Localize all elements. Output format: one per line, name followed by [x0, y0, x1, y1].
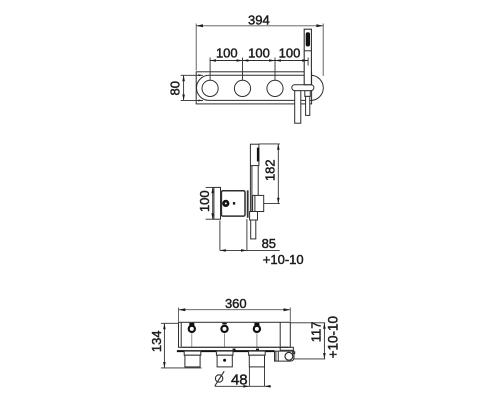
arrow 182 top [277, 144, 280, 150]
arrow pair at knob3 [269, 59, 281, 62]
thin strip under body [182, 346, 288, 348]
arrow pair at knob2 [237, 59, 249, 62]
holder inner line 1 [275, 351, 277, 361]
body left cap line [180, 322, 182, 347]
arrow 85 left [220, 249, 226, 252]
svg-text:80: 80 [168, 81, 183, 95]
dimension line 100 middle [212, 187, 214, 219]
extension line diameter right [264, 367, 266, 386]
arrow 117 top [323, 323, 326, 329]
arrow at knob1 [210, 59, 216, 62]
small mark on plate line left [233, 349, 236, 351]
handshower head bottom line [304, 50, 311, 52]
dimension line 85 [220, 249, 280, 251]
extension line 134 top [161, 322, 179, 324]
knob circle 1 [202, 80, 218, 96]
svg-text:+10-10: +10-10 [263, 252, 304, 267]
screw 1 axis line [191, 334, 193, 348]
dimension line 100 chain [210, 60, 308, 62]
tick arrow 80 top [198, 74, 203, 76]
arrow diameter left [243, 385, 249, 388]
dimension line 117 [323, 323, 325, 359]
extension line 117 top [290, 322, 325, 324]
tab 1 flange [184, 351, 201, 355]
extension line 360 left [178, 308, 180, 322]
arrow 100 bottom [211, 213, 214, 219]
extension line diameter left [248, 367, 250, 386]
dimension line 182 [277, 144, 279, 204]
arrow diameter right [265, 385, 271, 388]
valve body side view [221, 191, 245, 216]
svg-text:182: 182 [262, 159, 277, 181]
handshower spray face black [306, 32, 310, 46]
arrow top 80 [182, 75, 185, 81]
arrow left 394 [196, 24, 203, 27]
screw 1 [189, 326, 195, 332]
svg-text:360: 360 [225, 296, 247, 311]
arrow 85 right [241, 249, 247, 252]
extension line 360 right [289, 308, 291, 322]
arrow 360 left [179, 308, 186, 311]
body right cap line [279, 322, 281, 347]
svg-text:100: 100 [248, 45, 270, 60]
dimension line 134 [163, 323, 165, 368]
extension line 182 top [259, 143, 280, 145]
extension line 85 right [246, 219, 248, 250]
hose right tube [306, 96, 310, 115]
wall plate thick line [177, 350, 275, 352]
dimension line 80 [183, 75, 185, 100]
arrow right 394 [316, 24, 323, 27]
screw 3 [254, 326, 260, 332]
hose right connector [305, 91, 311, 97]
panel stadium body top view [197, 75, 324, 100]
arrow 117 bottom [323, 353, 326, 359]
dimension line 360 [179, 309, 291, 311]
screw 1 cap [189, 323, 194, 326]
extension line shower axis [307, 58, 309, 66]
svg-text:100: 100 [279, 45, 301, 60]
extension line knob2 [242, 58, 244, 81]
arrow 100 top [211, 187, 214, 193]
shower handle left line [249, 166, 251, 212]
holder notch [293, 352, 295, 354]
extension line 117 bottom [293, 358, 325, 360]
tab 3 flange [249, 351, 266, 355]
arrow 360 right [284, 308, 291, 311]
tab 3 square [249, 355, 264, 367]
extension line 100 top [206, 186, 214, 188]
panel outer rectangle top view [196, 72, 311, 104]
tab 2 dot [223, 359, 226, 362]
small mark on plate line right [256, 349, 259, 351]
arrow at shower axis [302, 59, 308, 62]
diameter symbol circle [215, 375, 222, 382]
dimension line 394 [196, 25, 323, 27]
screw 2 cap [222, 323, 226, 325]
tab 2 square [217, 355, 232, 367]
svg-text:100: 100 [197, 190, 212, 212]
hose connector below handle [250, 212, 258, 221]
screw 3 cap [254, 323, 259, 326]
svg-text:+10-10: +10-10 [325, 316, 340, 358]
arrow 182 bottom [277, 198, 280, 204]
svg-text:85: 85 [262, 236, 276, 251]
holder hose circle [285, 352, 293, 360]
dimension line diameter 48 [215, 385, 271, 387]
small square on body [233, 202, 235, 205]
arrow 134 top [163, 323, 166, 329]
shower head side view [250, 144, 259, 165]
holder inner line 2 [277, 351, 279, 361]
shower head spray strip [257, 148, 259, 162]
svg-text:117: 117 [308, 322, 323, 343]
tick arrow 80 bottom [198, 100, 203, 102]
extension line right 394 [322, 24, 324, 77]
extension line 85 left [219, 221, 221, 251]
handshower handle top view [304, 29, 311, 84]
handle square inner line [254, 195, 256, 211]
screw ring on body [224, 201, 229, 206]
shower handle right line [257, 166, 259, 196]
arrow bottom 80 [182, 95, 185, 101]
extension line 182 bottom [264, 203, 280, 205]
arrow 134 bottom [163, 362, 166, 368]
svg-text:48: 48 [231, 372, 248, 389]
shower hose inner line [251, 166, 253, 212]
extension line knob1 [209, 58, 211, 81]
right plate step [280, 347, 293, 350]
svg-text:394: 394 [248, 12, 270, 27]
hose tube below [251, 220, 256, 239]
extension line knob3 [274, 58, 276, 81]
svg-text:134: 134 [149, 330, 164, 352]
tab 2 flange [216, 351, 233, 355]
holder box bottom view [275, 351, 295, 361]
hose left tube [295, 91, 301, 124]
diameter symbol slash [215, 371, 224, 386]
extension line left 394 [195, 24, 197, 71]
trim plate side view [214, 187, 221, 219]
extension line 134 bottom [161, 367, 202, 369]
extension line 100 bottom [206, 218, 214, 220]
knob circle 3 [267, 80, 283, 96]
handle square side view [253, 195, 264, 211]
escutcheon bar dark [247, 190, 249, 218]
screw 3 axis line [256, 334, 258, 348]
holder pill top view [292, 85, 314, 91]
screw 2 axis line [224, 334, 226, 348]
svg-text:100: 100 [216, 45, 238, 60]
extension line 80 bottom [181, 99, 203, 101]
tab 1 square [185, 355, 200, 367]
body rectangle bottom view [179, 322, 291, 347]
screw 2 [221, 326, 227, 332]
knob circle 2 [234, 80, 250, 96]
extension line 80 top [181, 74, 203, 76]
